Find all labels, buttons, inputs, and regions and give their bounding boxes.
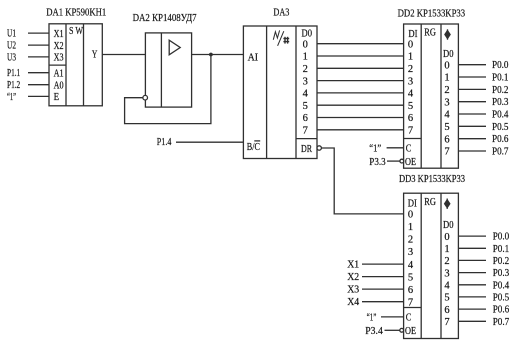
svg-text:P0.6: P0.6 bbox=[493, 304, 510, 316]
wire DD2 output 2 to port P0.2 bbox=[458, 88, 486, 90]
svg-text:5: 5 bbox=[408, 272, 413, 283]
svg-text:RG: RG bbox=[424, 27, 436, 39]
svg-text:6: 6 bbox=[408, 113, 413, 124]
DD3 OE inverting circle bbox=[400, 328, 404, 332]
wire const 1 to DA1 bbox=[28, 95, 49, 97]
svg-text:0: 0 bbox=[444, 60, 449, 71]
svg-text:6: 6 bbox=[408, 285, 413, 296]
DA3 ADC function symbol wave/slash/hash bbox=[273, 30, 289, 45]
svg-text:DA2 КР1408УД7: DA2 КР1408УД7 bbox=[133, 12, 197, 24]
multiplexer DA1 body bbox=[49, 24, 102, 106]
svg-text:0: 0 bbox=[444, 232, 449, 243]
svg-text:4: 4 bbox=[408, 260, 414, 271]
svg-text:1: 1 bbox=[444, 244, 449, 255]
DA2 inverting input circle bbox=[143, 95, 148, 100]
wire DD3 output 0 to port P0.0 bbox=[458, 235, 486, 237]
wire DD2 output 5 to port P0.5 bbox=[458, 125, 486, 127]
svg-text:X1: X1 bbox=[347, 259, 359, 271]
wire DD2 output 4 to port P0.4 bbox=[458, 113, 486, 115]
svg-text:4: 4 bbox=[444, 110, 450, 121]
svg-text:0: 0 bbox=[408, 39, 413, 50]
wire DD2 output 0 to port P0.0 bbox=[458, 64, 486, 66]
DD2 three-state output symbol bbox=[445, 29, 450, 39]
wire DD3 output 1 to port P0.1 bbox=[458, 247, 486, 249]
svg-text:4: 4 bbox=[444, 281, 450, 292]
wire DD3 output 7 to port P0.7 bbox=[458, 320, 486, 322]
svg-text:OE: OE bbox=[405, 156, 416, 168]
svg-text:1: 1 bbox=[303, 52, 308, 63]
svg-text:X2: X2 bbox=[347, 271, 359, 283]
svg-text:P3.4: P3.4 bbox=[365, 325, 383, 337]
svg-text:AI: AI bbox=[248, 51, 259, 63]
DD3 three-state output symbol bbox=[445, 199, 450, 209]
svg-text:4: 4 bbox=[303, 89, 309, 100]
wire DA3 output 3 to DD2 input 3 bbox=[317, 80, 404, 82]
svg-text:U1: U1 bbox=[7, 28, 16, 40]
svg-text:X2: X2 bbox=[54, 40, 64, 52]
svg-text:6: 6 bbox=[303, 113, 308, 124]
svg-text:Y: Y bbox=[92, 49, 98, 61]
svg-text:2: 2 bbox=[444, 85, 449, 96]
svg-text:1: 1 bbox=[408, 222, 413, 233]
svg-text:X3: X3 bbox=[347, 284, 359, 296]
svg-text:DD3 KP1533KP33: DD3 KP1533KP33 bbox=[399, 173, 465, 185]
svg-text:P0.7: P0.7 bbox=[493, 316, 510, 328]
svg-text:7: 7 bbox=[408, 297, 413, 308]
wire P1.4 to DA3 B/C bbox=[176, 141, 243, 143]
svg-text:1: 1 bbox=[408, 52, 413, 63]
register DD2 body bbox=[404, 24, 459, 168]
wire const 1 to DD2 C bbox=[387, 147, 404, 149]
svg-text:P0.6: P0.6 bbox=[492, 133, 509, 145]
svg-text:RG: RG bbox=[424, 196, 436, 208]
svg-text:“1”: “1” bbox=[367, 312, 377, 324]
DA2 amplifier triangle symbol bbox=[169, 40, 180, 55]
svg-text:3: 3 bbox=[408, 247, 413, 258]
wire X3 to DD3 input 6 bbox=[362, 288, 404, 290]
svg-text:P1.2: P1.2 bbox=[7, 79, 20, 91]
svg-text:P0.5: P0.5 bbox=[492, 121, 509, 133]
svg-text:P0.3: P0.3 bbox=[493, 267, 510, 279]
wire DD3 output 2 to port P0.2 bbox=[458, 259, 486, 261]
svg-text:U2: U2 bbox=[7, 40, 16, 52]
junction dot on DA2 output bbox=[209, 53, 213, 57]
svg-text:P3.3: P3.3 bbox=[369, 156, 386, 168]
svg-text:7: 7 bbox=[444, 317, 449, 328]
register DD3 body bbox=[404, 193, 459, 338]
wire DD3 output 4 to port P0.4 bbox=[458, 284, 486, 286]
svg-text:P0.0: P0.0 bbox=[493, 231, 510, 243]
svg-text:0: 0 bbox=[303, 39, 308, 50]
wire DA3 output 0 to DD2 input 0 bbox=[317, 43, 404, 45]
feedback wire DA2 output to inverting input bbox=[125, 55, 211, 124]
svg-text:7: 7 bbox=[444, 147, 449, 158]
wire DA2 output to DA3 AI bbox=[192, 54, 244, 56]
svg-text:D0: D0 bbox=[443, 219, 454, 231]
svg-text:P1.1: P1.1 bbox=[7, 67, 20, 79]
svg-text:P0.2: P0.2 bbox=[492, 84, 509, 96]
wire DA3 output 2 to DD2 input 2 bbox=[317, 67, 404, 69]
svg-text:P0.4: P0.4 bbox=[492, 109, 509, 121]
svg-text:P0.4: P0.4 bbox=[493, 279, 510, 291]
wire DD2 output 1 to port P0.1 bbox=[458, 76, 486, 78]
svg-text:DI: DI bbox=[408, 28, 417, 40]
wire P3.4 to DD3 OE bbox=[385, 329, 400, 331]
svg-text:5: 5 bbox=[444, 122, 449, 133]
svg-text:D0: D0 bbox=[443, 48, 454, 60]
svg-text:X3: X3 bbox=[54, 52, 64, 64]
wire U1 to DA1 bbox=[28, 32, 49, 34]
svg-text:P0.1: P0.1 bbox=[492, 72, 509, 84]
wire U3 to DA1 bbox=[28, 56, 49, 58]
svg-text:P0.0: P0.0 bbox=[492, 59, 509, 71]
svg-text:D0: D0 bbox=[302, 27, 313, 39]
svg-text:A0: A0 bbox=[54, 80, 64, 92]
svg-text:DA3: DA3 bbox=[273, 6, 289, 18]
svg-text:A1: A1 bbox=[54, 68, 64, 80]
wire P1.1 to DA1 bbox=[28, 72, 49, 74]
svg-text:3: 3 bbox=[303, 76, 308, 87]
wire DD2 output 7 to port P0.7 bbox=[458, 150, 486, 152]
svg-text:P0.5: P0.5 bbox=[493, 291, 510, 303]
svg-text:C: C bbox=[406, 143, 412, 155]
svg-text:DR: DR bbox=[301, 143, 312, 155]
DA1 left-column divider bbox=[49, 64, 66, 66]
svg-text:E: E bbox=[54, 91, 60, 103]
svg-text:6: 6 bbox=[444, 305, 449, 316]
svg-text:P1.4: P1.4 bbox=[157, 136, 172, 148]
wire DA3 output 4 to DD2 input 4 bbox=[317, 92, 404, 94]
svg-text:3: 3 bbox=[408, 76, 413, 87]
wire DA3 output 7 to DD2 input 7 bbox=[317, 129, 404, 131]
svg-text:S W: S W bbox=[69, 25, 83, 37]
svg-text:0: 0 bbox=[408, 210, 413, 221]
wire DA3 output 1 to DD2 input 1 bbox=[317, 55, 404, 57]
svg-text:6: 6 bbox=[444, 134, 449, 145]
wire DD2 output 3 to port P0.3 bbox=[458, 101, 486, 103]
svg-text:2: 2 bbox=[408, 235, 413, 246]
svg-text:7: 7 bbox=[408, 126, 413, 137]
wire DA3 output 6 to DD2 input 6 bbox=[317, 117, 404, 119]
svg-text:B/C: B/C bbox=[247, 141, 260, 153]
svg-text:5: 5 bbox=[408, 101, 413, 112]
svg-text:OE: OE bbox=[405, 325, 416, 337]
ADC DA3 body bbox=[243, 26, 317, 159]
svg-text:4: 4 bbox=[408, 89, 414, 100]
svg-text:7: 7 bbox=[303, 126, 308, 137]
DA3 DR inverted output circle bbox=[317, 146, 321, 150]
wire U2 to DA1 bbox=[28, 44, 49, 46]
wire X1 to DD3 input 4 bbox=[362, 263, 404, 265]
svg-text:2: 2 bbox=[303, 64, 308, 75]
wire DD3 output 6 to port P0.6 bbox=[458, 308, 486, 310]
wire X4 to DD3 input 7 bbox=[362, 301, 404, 303]
svg-text:U3: U3 bbox=[7, 51, 16, 63]
DD3 C/OE section divider bbox=[404, 307, 422, 309]
svg-text:2: 2 bbox=[444, 256, 449, 267]
DD2 OE inverting circle bbox=[400, 159, 404, 163]
wire DA1 Y output to DA2 input bbox=[102, 54, 145, 56]
wire DD3 output 3 to port P0.3 bbox=[458, 272, 486, 274]
wire DD3 output 5 to port P0.5 bbox=[458, 296, 486, 298]
svg-text:1: 1 bbox=[444, 73, 449, 84]
DD2 C/OE section divider bbox=[404, 138, 422, 140]
svg-text:DA1 KP590KH1: DA1 KP590KH1 bbox=[46, 6, 106, 18]
svg-text:5: 5 bbox=[444, 293, 449, 304]
wire P1.2 to DA1 bbox=[28, 84, 49, 86]
svg-text:5: 5 bbox=[303, 101, 308, 112]
svg-text:P0.1: P0.1 bbox=[493, 243, 510, 255]
op-amp DA2 body bbox=[145, 33, 191, 107]
svg-text:P0.7: P0.7 bbox=[492, 146, 509, 158]
wire X2 to DD3 input 5 bbox=[362, 276, 404, 278]
svg-text:DI: DI bbox=[408, 197, 417, 209]
svg-text:3: 3 bbox=[444, 97, 449, 108]
svg-text:P0.3: P0.3 bbox=[492, 96, 509, 108]
svg-text:C: C bbox=[406, 312, 412, 324]
svg-text:P0.2: P0.2 bbox=[493, 255, 510, 267]
svg-text:X1: X1 bbox=[54, 28, 64, 40]
svg-text:X4: X4 bbox=[347, 296, 359, 308]
svg-text:2: 2 bbox=[408, 64, 413, 75]
DA3 DR section divider bbox=[296, 138, 317, 140]
wire DA3 output 5 to DD2 input 5 bbox=[317, 104, 404, 106]
wire DR to DD3 input 0 bbox=[321, 148, 403, 214]
wire DD2 output 6 to port P0.6 bbox=[458, 138, 486, 140]
wire const 1 to DD3 C bbox=[381, 316, 404, 318]
svg-text:“1”: “1” bbox=[7, 91, 16, 103]
svg-text:3: 3 bbox=[444, 268, 449, 279]
svg-text:DD2 KP1533KP33: DD2 KP1533KP33 bbox=[398, 7, 466, 19]
wire P3.3 to DD2 OE bbox=[387, 160, 400, 162]
svg-text:“1”: “1” bbox=[369, 142, 381, 154]
